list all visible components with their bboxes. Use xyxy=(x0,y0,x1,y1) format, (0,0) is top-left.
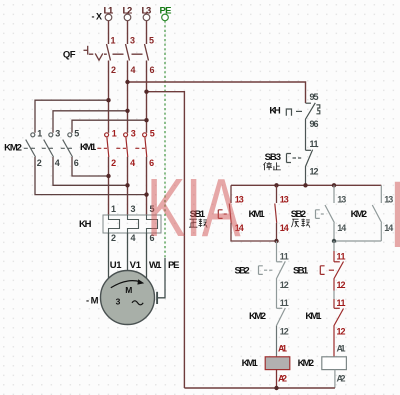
svg-text:2: 2 xyxy=(111,233,116,243)
contactor KM1 main contacts (closed) xyxy=(97,133,147,157)
svg-text:A1: A1 xyxy=(278,344,287,354)
svg-text:4: 4 xyxy=(130,158,135,168)
wire L1 lower xyxy=(108,157,110,215)
svg-text:W1: W1 xyxy=(149,260,162,271)
wire L1 top xyxy=(108,21,110,44)
thermal overload KH xyxy=(103,215,161,233)
svg-text:14: 14 xyxy=(337,223,346,233)
wire W1 to motor xyxy=(146,233,148,280)
coil KM1 xyxy=(265,357,290,370)
svg-text:12: 12 xyxy=(337,280,346,290)
svg-text:12: 12 xyxy=(337,326,346,336)
svg-text:-X: -X xyxy=(92,12,103,22)
svg-text:4: 4 xyxy=(131,233,136,243)
interlock button SB2 NC (closed) xyxy=(276,241,278,262)
svg-text:11: 11 xyxy=(280,298,289,308)
svg-text:6: 6 xyxy=(150,65,155,75)
svg-text:KM2: KM2 xyxy=(298,358,314,369)
svg-text:5: 5 xyxy=(150,129,155,139)
svg-text:11: 11 xyxy=(337,252,346,262)
junction node reverse xyxy=(332,239,336,243)
svg-text:4: 4 xyxy=(55,158,60,168)
wire KM2 aux down xyxy=(380,223,382,241)
svg-text:5: 5 xyxy=(149,36,154,46)
wire L3 lower xyxy=(146,157,148,215)
svg-text:-M: -M xyxy=(86,296,99,307)
wire KM2 coil to rail xyxy=(334,370,336,388)
junction on L3 lower xyxy=(144,192,148,196)
svg-text:A2: A2 xyxy=(337,374,346,384)
wire KM2 top pole2 xyxy=(53,111,128,133)
wire SB3 to rail xyxy=(305,167,307,185)
junction rail SB2 xyxy=(332,183,336,187)
terminal PE xyxy=(162,14,169,21)
wire KM2 bottom pole1 to L3 xyxy=(35,157,147,195)
svg-text:KM1: KM1 xyxy=(305,311,322,322)
wire SB1 NC down xyxy=(333,279,335,291)
junction rail KM1aux xyxy=(274,183,278,187)
wire L3 top xyxy=(146,21,148,44)
svg-text:96: 96 xyxy=(310,119,319,129)
terminal L1 xyxy=(105,14,112,21)
wire KM2 NC to coil xyxy=(276,326,278,357)
svg-text:SB2: SB2 xyxy=(235,266,250,277)
svg-text:SB3: SB3 xyxy=(265,152,282,163)
terminal L3 xyxy=(143,14,150,21)
contactor KM1 aux contact (closed) xyxy=(276,185,278,203)
wire L2 lower xyxy=(127,157,129,215)
svg-text:1: 1 xyxy=(111,36,116,46)
svg-text:QF: QF xyxy=(63,50,76,61)
wire PE to motor xyxy=(158,258,165,298)
junction on L3 xyxy=(144,118,148,122)
svg-text:KM1: KM1 xyxy=(80,142,97,153)
svg-text:1: 1 xyxy=(111,204,116,214)
wire V1 to motor xyxy=(127,233,129,271)
wire KM1 NC to coil xyxy=(333,326,335,357)
svg-text:KM1: KM1 xyxy=(249,209,266,220)
svg-text:95: 95 xyxy=(310,92,319,102)
svg-text:KM2: KM2 xyxy=(249,311,266,322)
interlock button SB1 NC (open) xyxy=(333,241,335,251)
svg-text:2: 2 xyxy=(37,158,42,168)
svg-text:13: 13 xyxy=(337,195,346,205)
wire L3 mid xyxy=(146,61,148,133)
svg-text:KM2: KM2 xyxy=(351,209,367,220)
wire U1 to motor xyxy=(108,233,110,280)
svg-text:3: 3 xyxy=(131,129,136,139)
wire L2 top xyxy=(127,21,129,44)
wire KM1 coil to rail xyxy=(276,370,278,388)
svg-text:1: 1 xyxy=(112,129,117,139)
svg-text:PE: PE xyxy=(168,260,180,271)
svg-text:12: 12 xyxy=(280,280,289,290)
junction node forward xyxy=(274,239,278,243)
svg-text:KIA: KIA xyxy=(389,163,400,268)
coil KM2 xyxy=(322,357,347,370)
wire KM1 aux down xyxy=(276,223,278,241)
svg-text:12: 12 xyxy=(310,167,319,177)
stop button SB3 xyxy=(287,150,313,167)
svg-text:12: 12 xyxy=(280,326,289,336)
motor sine symbol xyxy=(132,301,143,305)
label reverse chinese xyxy=(291,219,310,228)
svg-text:11: 11 xyxy=(280,252,289,262)
wire KM2 bottom pole3 to L1 xyxy=(72,157,109,176)
svg-text:3: 3 xyxy=(55,129,60,139)
svg-text:KH: KH xyxy=(79,219,92,230)
watermark KIA xyxy=(147,162,400,268)
contactor KM2 aux contact (open) xyxy=(380,185,382,203)
junction on L2 xyxy=(125,109,129,113)
svg-text:KIA: KIA xyxy=(147,162,241,255)
wire PE dashed xyxy=(164,21,166,258)
svg-text:14: 14 xyxy=(280,223,289,233)
svg-text:3: 3 xyxy=(116,296,121,306)
svg-text:2: 2 xyxy=(111,158,116,168)
wire SB1 down xyxy=(231,223,277,241)
junction bottom rail xyxy=(274,386,278,390)
svg-text:A2: A2 xyxy=(278,374,287,384)
svg-text:1: 1 xyxy=(37,129,42,139)
bottom rail xyxy=(184,387,335,389)
svg-text:2: 2 xyxy=(111,65,116,75)
svg-text:A1: A1 xyxy=(337,344,346,354)
wire L2 mid xyxy=(127,61,129,133)
wire KM2 bottom pole2 to L2 xyxy=(53,157,128,185)
motor rotation arrow xyxy=(111,281,141,288)
svg-text:3: 3 xyxy=(130,36,135,46)
svg-text:U1: U1 xyxy=(110,260,123,271)
wire SB2 down xyxy=(334,223,381,241)
junction L2 feed xyxy=(125,80,129,84)
label stop chinese xyxy=(264,162,281,170)
svg-text:M: M xyxy=(125,285,132,295)
svg-text:13: 13 xyxy=(280,195,289,205)
junction on L2 lower xyxy=(125,183,129,187)
thermal relay aux contact KH xyxy=(286,103,320,120)
svg-text:6: 6 xyxy=(74,158,79,168)
svg-text:KM1: KM1 xyxy=(242,358,259,369)
wire KM2 top pole1 xyxy=(35,100,109,133)
terminal L2 xyxy=(124,14,131,21)
start button SB1 (pressed, closed) xyxy=(230,185,232,203)
junction rail SB3 xyxy=(303,183,307,187)
interlock contact KM2 NC (closed) xyxy=(276,308,285,326)
wire SB2 NC down xyxy=(276,279,278,308)
svg-text:11: 11 xyxy=(337,298,346,308)
svg-text:4: 4 xyxy=(131,65,136,75)
junction on L1 lower xyxy=(106,174,110,178)
interlock contact KM1 NC (open) xyxy=(334,308,344,326)
wire control feed from L2 xyxy=(128,82,306,103)
label forward chinese xyxy=(189,219,207,228)
svg-text:SB1: SB1 xyxy=(293,266,309,277)
junction on L1 xyxy=(106,98,110,102)
contactor KM2 main contacts (open) xyxy=(24,133,73,157)
svg-text:5: 5 xyxy=(74,129,79,139)
svg-text:V1: V1 xyxy=(130,260,142,271)
junction L3 feed xyxy=(144,90,148,94)
motor M xyxy=(101,271,155,325)
wire KH aux to SB3 xyxy=(305,120,307,151)
svg-text:3: 3 xyxy=(131,204,136,214)
wire L1 mid xyxy=(108,61,110,133)
svg-text:KH: KH xyxy=(269,106,280,117)
svg-text:SB2: SB2 xyxy=(291,209,306,220)
wire return feed from L3 xyxy=(147,92,185,388)
breaker QF xyxy=(84,44,149,61)
control rail xyxy=(231,184,381,186)
motor PE plate xyxy=(156,292,158,304)
svg-text:11: 11 xyxy=(310,139,319,149)
wire KM2 top pole3 xyxy=(72,120,147,133)
svg-text:KM2: KM2 xyxy=(4,143,22,154)
start button SB2 (open) xyxy=(333,185,335,203)
